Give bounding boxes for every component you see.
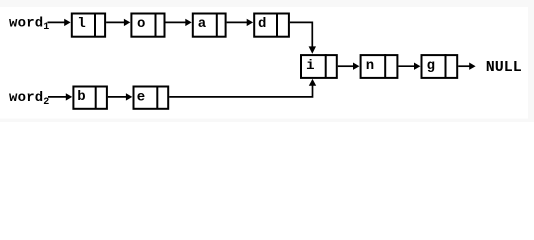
node l bbox=[72, 13, 105, 37]
wire d to node i (right then down) bbox=[290, 22, 312, 46]
svg-text:g: g bbox=[427, 58, 435, 74]
svg-text:i: i bbox=[306, 58, 314, 74]
node a bbox=[193, 13, 226, 37]
node n bbox=[361, 54, 398, 78]
wire l to o bbox=[106, 21, 124, 23]
wire b to e bbox=[108, 96, 126, 98]
svg-text:d: d bbox=[258, 16, 266, 32]
wire n to g bbox=[398, 65, 414, 67]
svg-text:2: 2 bbox=[43, 97, 49, 108]
svg-text:e: e bbox=[137, 90, 145, 106]
svg-text:a: a bbox=[198, 16, 207, 32]
wire o to a bbox=[166, 21, 186, 23]
svg-text:word: word bbox=[9, 16, 43, 32]
wire word1 to node l bbox=[48, 21, 65, 23]
svg-text:1: 1 bbox=[43, 22, 49, 33]
node d bbox=[254, 13, 289, 37]
node g bbox=[422, 54, 458, 78]
node b bbox=[73, 86, 107, 109]
wire word2 to node b bbox=[48, 96, 66, 98]
svg-text:b: b bbox=[77, 89, 85, 105]
wire a to d bbox=[227, 21, 247, 23]
svg-text:NULL: NULL bbox=[486, 59, 522, 76]
svg-text:n: n bbox=[366, 58, 374, 74]
wire e to node i (right then up) bbox=[169, 85, 312, 97]
wire g to NULL bbox=[458, 65, 469, 67]
node o bbox=[131, 13, 164, 37]
background card bbox=[0, 0, 534, 122]
svg-text:l: l bbox=[77, 16, 85, 32]
node i bbox=[301, 54, 337, 78]
svg-text:word: word bbox=[9, 90, 43, 106]
svg-text:o: o bbox=[137, 16, 145, 32]
wire i to n bbox=[338, 65, 354, 67]
node e bbox=[134, 86, 169, 109]
